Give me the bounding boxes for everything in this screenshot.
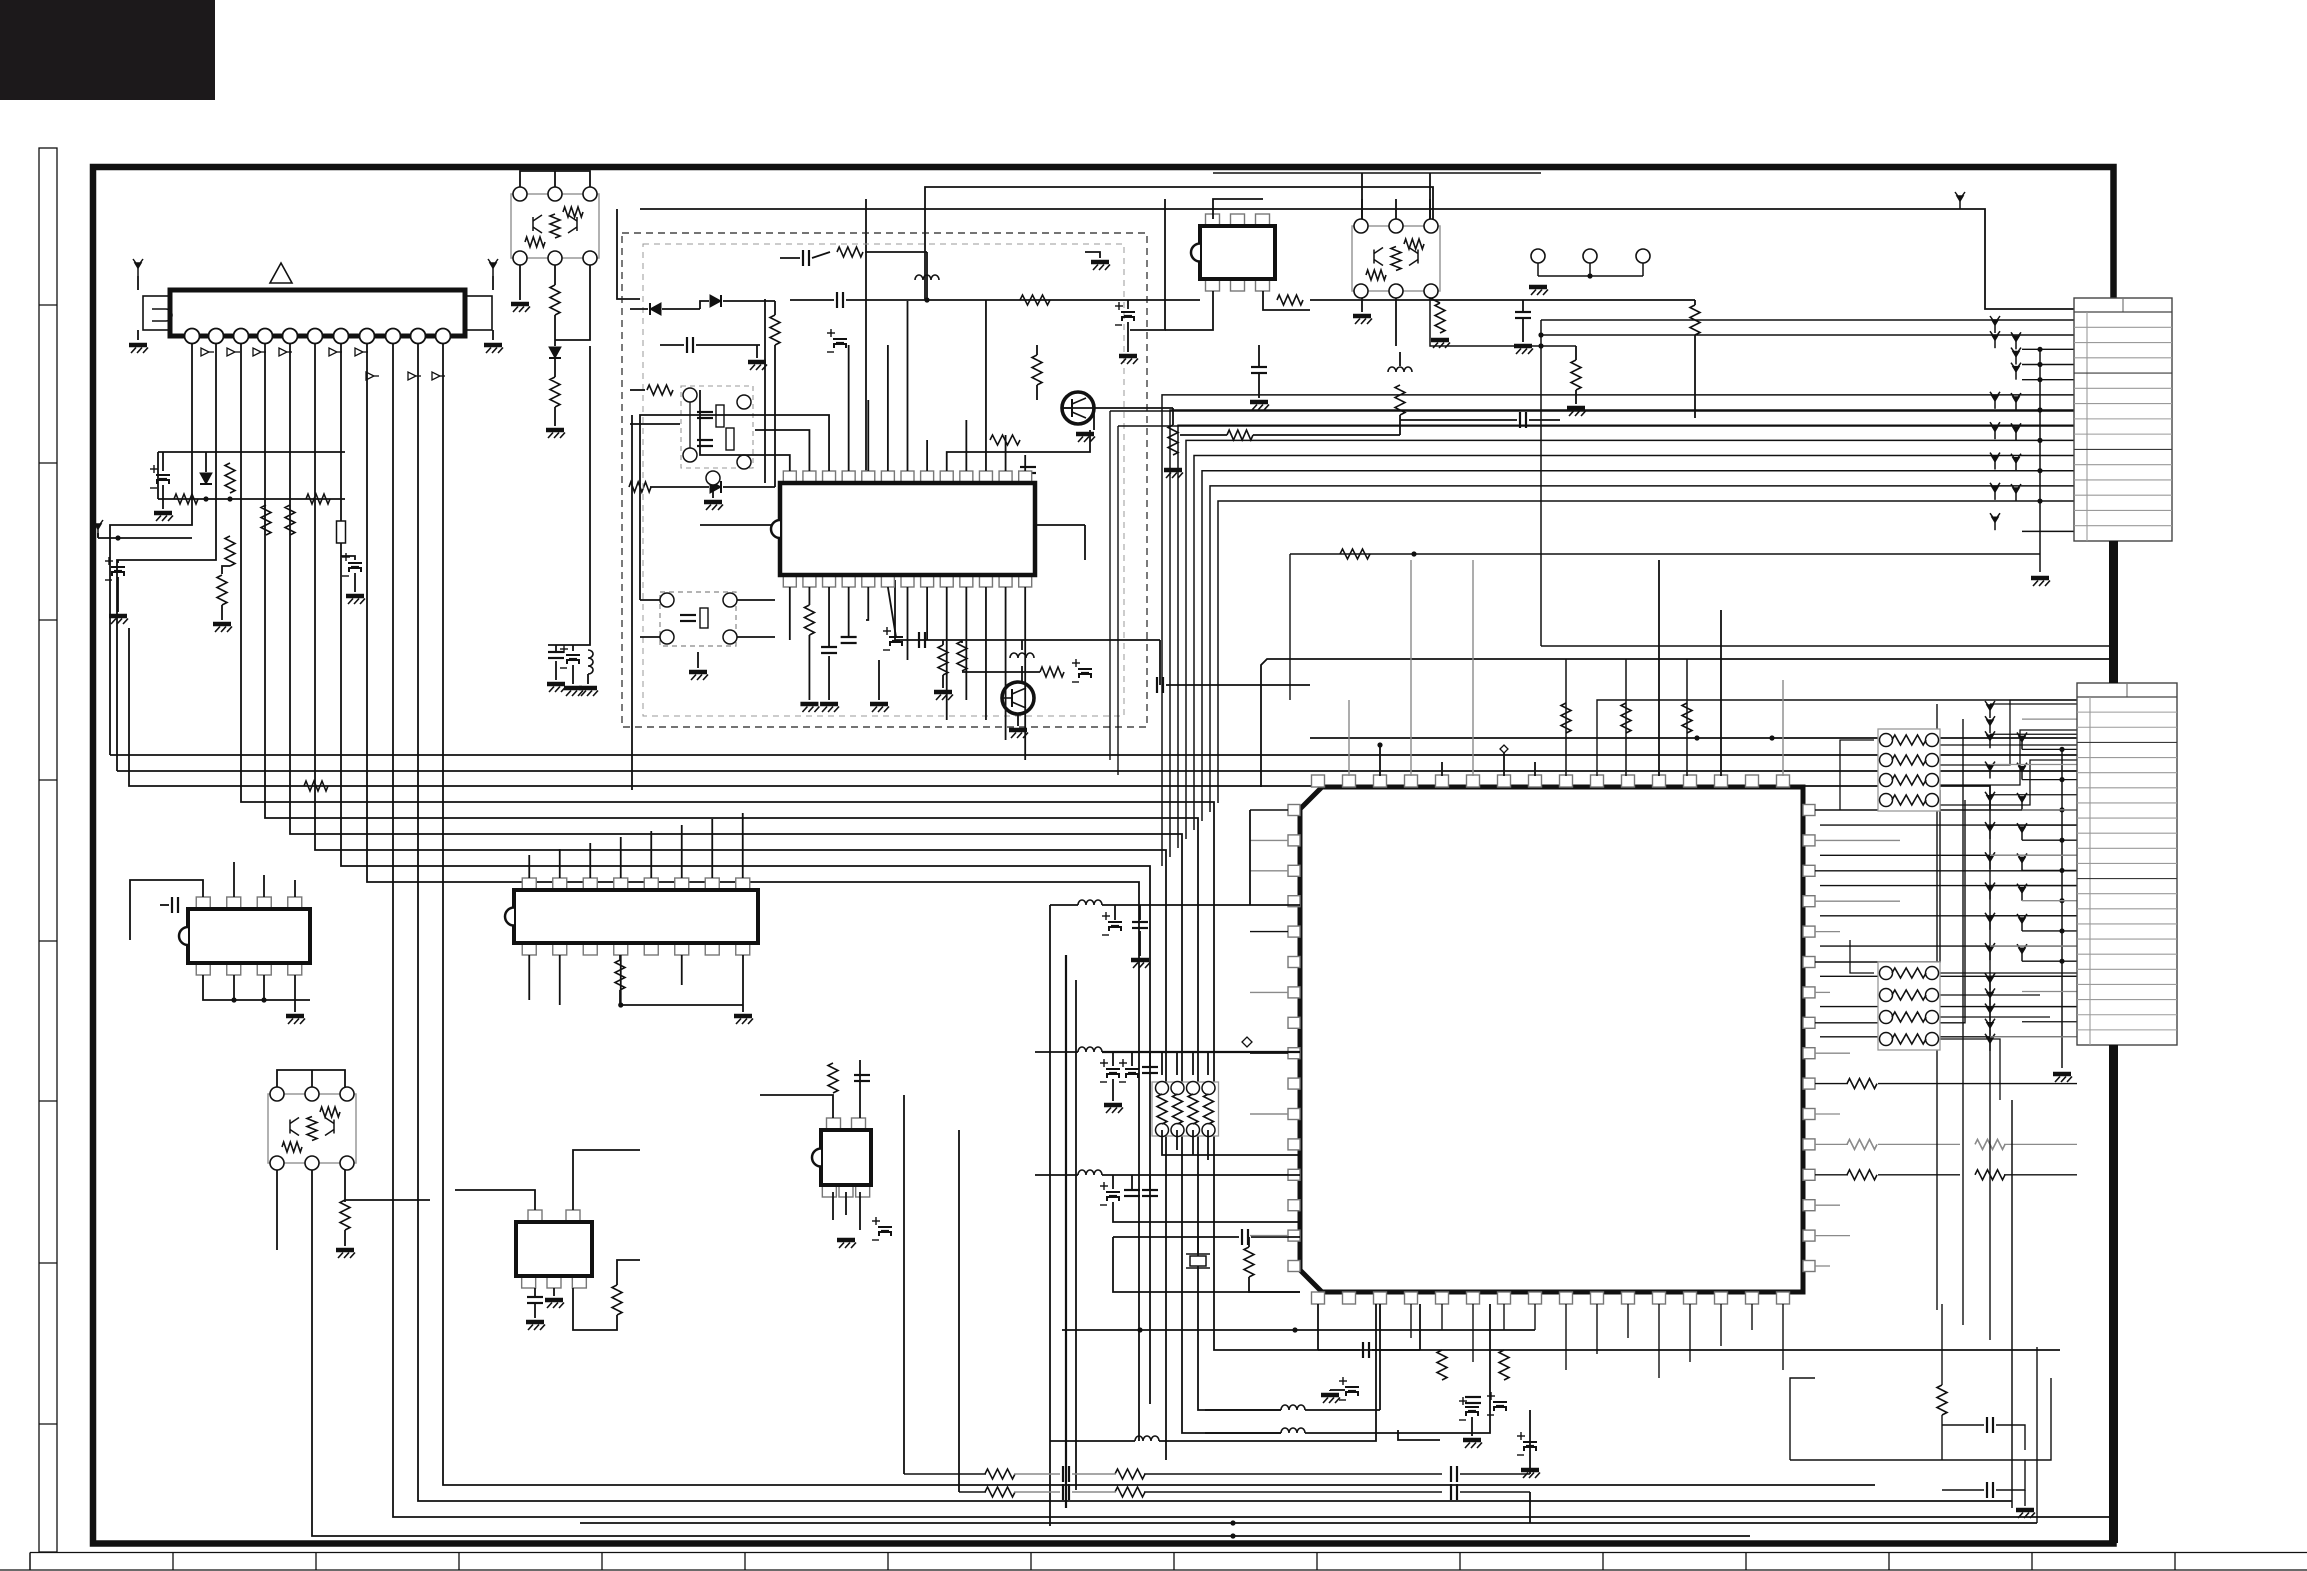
capacitor bbox=[841, 637, 857, 643]
wire bbox=[203, 975, 310, 1000]
junction bbox=[1292, 1327, 1297, 1332]
wire bbox=[1820, 1036, 2077, 1038]
wire bbox=[790, 299, 834, 301]
coil L7 bbox=[588, 650, 593, 674]
capacitor bbox=[687, 337, 693, 353]
wire bbox=[1065, 955, 1067, 1508]
wire bbox=[1441, 762, 1443, 776]
wire bbox=[97, 533, 99, 538]
wire bbox=[1348, 700, 1350, 776]
IC IC8 main processor bbox=[1300, 787, 1803, 1292]
resistor bbox=[1847, 1170, 1877, 1180]
ecap bbox=[1100, 1059, 1120, 1082]
capacitor C6 bbox=[150, 465, 170, 488]
wire bbox=[1720, 610, 1722, 776]
test point bbox=[1990, 422, 2000, 439]
resistor bbox=[957, 641, 967, 671]
diode D3 bbox=[650, 303, 661, 315]
wire bbox=[962, 671, 1040, 673]
wire bbox=[1820, 915, 2077, 917]
wire bbox=[1541, 334, 2074, 336]
wire bbox=[1172, 408, 1174, 425]
capacitor C8 bbox=[342, 553, 362, 576]
connector CN1 bbox=[2074, 298, 2172, 541]
ground bbox=[820, 704, 839, 712]
wire bbox=[1263, 291, 1310, 310]
capacitor bbox=[1251, 367, 1267, 373]
wire bbox=[1990, 733, 2077, 735]
ground bbox=[1104, 1105, 1123, 1113]
resistor bbox=[1682, 703, 1692, 733]
wire bbox=[1305, 1304, 1490, 1433]
wire bbox=[221, 605, 223, 620]
wire bbox=[1127, 322, 1129, 352]
wire bbox=[341, 343, 1150, 1404]
connector J3 pins bbox=[1531, 249, 1545, 263]
junction bbox=[115, 535, 120, 540]
wire bbox=[573, 1288, 617, 1330]
test point bbox=[1990, 513, 2000, 530]
test point bbox=[1985, 762, 1995, 779]
capacitor bbox=[1142, 1067, 1158, 1073]
wire bbox=[1429, 173, 1431, 219]
test point bbox=[2017, 823, 2027, 840]
wire bbox=[1035, 1174, 1078, 1176]
wire bbox=[294, 975, 296, 1012]
wire bbox=[1176, 1052, 1178, 1075]
ground bbox=[1353, 316, 1372, 324]
resistor bbox=[225, 463, 235, 493]
ecap bbox=[1102, 912, 1122, 935]
junction bbox=[2059, 807, 2064, 812]
wire bbox=[789, 587, 791, 640]
wire bbox=[1430, 298, 1576, 346]
ground bbox=[213, 624, 232, 632]
wire bbox=[1419, 1304, 1421, 1350]
wire bbox=[1162, 395, 2074, 866]
wire bbox=[946, 587, 948, 720]
capacitor bbox=[1987, 1482, 1993, 1498]
wire bbox=[559, 849, 561, 878]
wire bbox=[263, 975, 265, 1000]
wire bbox=[942, 640, 944, 645]
wire bbox=[697, 652, 699, 668]
junction bbox=[2059, 868, 2064, 873]
capacitor bbox=[1063, 1466, 1069, 1482]
wire bbox=[554, 315, 556, 340]
resistor bbox=[1115, 1469, 1145, 1479]
wire bbox=[1361, 199, 1363, 219]
wire bbox=[985, 300, 987, 471]
wire bbox=[1529, 1492, 1531, 1523]
resistor bbox=[1437, 1350, 1447, 1380]
capacitor bbox=[803, 250, 809, 266]
wire bbox=[1250, 931, 1288, 933]
wire bbox=[1114, 905, 1116, 920]
wire bbox=[640, 415, 829, 600]
wire bbox=[904, 1473, 986, 1475]
wire bbox=[354, 573, 356, 592]
resistor bbox=[647, 385, 673, 395]
wire bbox=[572, 665, 574, 684]
wire bbox=[1460, 1473, 1530, 1475]
wire bbox=[1110, 410, 2074, 412]
probe arrow bbox=[355, 348, 368, 356]
test point bbox=[1985, 1004, 1995, 1021]
wire bbox=[700, 524, 980, 526]
wire bbox=[630, 308, 648, 310]
wire bbox=[554, 171, 556, 187]
wire bbox=[2022, 809, 2077, 811]
test point bbox=[1985, 1034, 1995, 1051]
ground bbox=[484, 345, 503, 353]
test point bbox=[2017, 793, 2027, 810]
resistor bbox=[1244, 1247, 1254, 1277]
test point bbox=[1990, 331, 2000, 348]
ground bbox=[1131, 960, 1150, 968]
wire bbox=[1113, 1236, 1239, 1238]
wire bbox=[1815, 1174, 1848, 1176]
ecap bbox=[1339, 1377, 1359, 1400]
IC IC2 bbox=[771, 471, 1035, 587]
wire bbox=[1024, 587, 1026, 760]
wire bbox=[2022, 990, 2077, 992]
wire bbox=[859, 1060, 861, 1118]
wire bbox=[1522, 318, 1524, 342]
wire bbox=[1410, 560, 1412, 776]
wire bbox=[1253, 434, 1400, 436]
test point bbox=[1985, 792, 1995, 809]
wire bbox=[276, 1170, 278, 1250]
wire bbox=[1689, 1304, 1691, 1362]
capacitor bbox=[1242, 1229, 1248, 1245]
wire bbox=[1249, 1277, 1300, 1292]
resistor bbox=[985, 1469, 1015, 1479]
coil L3 bbox=[1010, 653, 1034, 658]
wire bbox=[2036, 1347, 2038, 1523]
junction bbox=[2059, 959, 2064, 964]
wire bbox=[117, 560, 119, 563]
wire bbox=[555, 661, 557, 680]
resistor bbox=[1571, 360, 1581, 390]
junction bbox=[2037, 468, 2042, 473]
antenna node bbox=[488, 259, 498, 276]
wire bbox=[559, 955, 561, 1005]
junction bbox=[203, 496, 208, 501]
wire bbox=[965, 587, 967, 700]
wire bbox=[1084, 525, 1086, 560]
wire bbox=[1131, 1175, 1133, 1189]
test point bbox=[2017, 853, 2027, 870]
junction bbox=[1230, 1533, 1235, 1538]
wire bbox=[1085, 252, 1100, 258]
wire bbox=[926, 587, 928, 640]
capacitor bbox=[1465, 1397, 1481, 1403]
wire bbox=[1815, 809, 2077, 811]
wire bbox=[1093, 408, 1095, 430]
wire bbox=[1113, 1202, 1300, 1222]
wire bbox=[927, 299, 1200, 301]
wire bbox=[1102, 1174, 1300, 1176]
junction bbox=[2037, 498, 2042, 503]
wire bbox=[573, 1150, 640, 1210]
wire bbox=[117, 577, 119, 612]
wire bbox=[162, 452, 164, 471]
ground bbox=[2031, 578, 2050, 586]
diode D4 bbox=[710, 295, 721, 307]
wire bbox=[129, 628, 1990, 810]
wire bbox=[2022, 1021, 2077, 1023]
ground bbox=[1091, 262, 1110, 270]
wire bbox=[1049, 905, 1051, 1526]
wire bbox=[2022, 348, 2074, 350]
wire bbox=[907, 587, 909, 660]
resistor bbox=[217, 575, 227, 605]
junction bbox=[1587, 273, 1592, 278]
ground bbox=[1463, 1440, 1482, 1448]
wire bbox=[1815, 1113, 1840, 1115]
wire bbox=[1565, 1304, 1567, 1370]
wire bbox=[846, 299, 927, 301]
resistor bbox=[1115, 1487, 1145, 1497]
wire bbox=[985, 587, 987, 720]
wire bbox=[587, 674, 589, 684]
wire bbox=[1249, 810, 1251, 905]
wire bbox=[1180, 434, 1227, 436]
junction bbox=[1377, 742, 1382, 747]
wire bbox=[1400, 419, 1517, 421]
resistor bbox=[804, 605, 814, 635]
wire bbox=[1597, 700, 2113, 776]
wire bbox=[1503, 753, 1505, 776]
wire bbox=[528, 955, 530, 1000]
capacitor bbox=[1515, 312, 1531, 318]
wire bbox=[1878, 1174, 1960, 1176]
wire bbox=[455, 1190, 535, 1210]
wire bbox=[1149, 1175, 1151, 1189]
wire bbox=[755, 430, 809, 471]
rnet RN3 bbox=[1152, 1082, 1219, 1137]
wire bbox=[158, 451, 345, 453]
wire bbox=[1840, 740, 1874, 810]
ground bbox=[1529, 287, 1548, 295]
wire bbox=[1250, 809, 1288, 811]
wire bbox=[774, 345, 776, 487]
wire bbox=[650, 486, 709, 488]
probe arrow bbox=[201, 348, 214, 356]
wire bbox=[1395, 199, 1397, 219]
wire bbox=[894, 580, 896, 640]
wire bbox=[711, 819, 713, 878]
wire bbox=[1361, 173, 1363, 219]
junction bbox=[231, 997, 236, 1002]
wire bbox=[925, 187, 1433, 300]
wire bbox=[1815, 1265, 1830, 1267]
wire bbox=[1251, 1236, 1300, 1238]
wire bbox=[780, 257, 800, 259]
wire bbox=[1720, 1304, 1722, 1346]
test point bbox=[1990, 483, 2000, 500]
resistor bbox=[1020, 295, 1050, 305]
resistor bbox=[837, 247, 863, 257]
wire bbox=[866, 587, 868, 620]
wire bbox=[1815, 870, 2077, 872]
ground bbox=[1431, 340, 1450, 348]
junction bbox=[2037, 438, 2042, 443]
capacitor bbox=[1451, 1484, 1457, 1500]
wire bbox=[1250, 1113, 1288, 1115]
wire bbox=[1050, 904, 1078, 906]
capacitor bbox=[837, 292, 843, 308]
wire bbox=[1625, 659, 1627, 776]
test point bbox=[1985, 852, 1995, 869]
wire bbox=[1250, 991, 1288, 993]
test point bbox=[1985, 701, 1995, 718]
wire bbox=[554, 265, 556, 285]
junction bbox=[2059, 898, 2064, 903]
junction bbox=[2059, 777, 2064, 782]
wire bbox=[315, 343, 1166, 1460]
wire bbox=[617, 209, 640, 299]
resistor bbox=[1227, 430, 1253, 440]
wire bbox=[961, 640, 963, 643]
wire bbox=[1149, 1052, 1151, 1066]
wire bbox=[222, 566, 230, 574]
wire bbox=[1815, 1083, 1848, 1085]
wire bbox=[1318, 1349, 1360, 1351]
wire bbox=[1072, 1491, 1116, 1493]
wire bbox=[888, 587, 896, 637]
wire bbox=[764, 299, 766, 483]
wire bbox=[1878, 1083, 2077, 1085]
ground bbox=[1013, 692, 1032, 700]
wire bbox=[1815, 931, 1840, 933]
capacitor bbox=[527, 1297, 543, 1303]
wire bbox=[344, 1230, 346, 1246]
resistor bbox=[1277, 295, 1303, 305]
wire bbox=[1289, 554, 1291, 700]
wire bbox=[1815, 1235, 1850, 1237]
wire bbox=[1540, 320, 1542, 646]
wire bbox=[2022, 900, 2077, 902]
IC IC6 bbox=[516, 1210, 592, 1288]
wire bbox=[1575, 390, 1577, 404]
wire bbox=[1144, 1473, 1442, 1475]
ground bbox=[286, 1016, 305, 1024]
probe arrow bbox=[253, 348, 266, 356]
rnet RN2 bbox=[1878, 962, 1940, 1050]
wire bbox=[1925, 730, 2077, 785]
resistor bbox=[304, 781, 328, 791]
wire bbox=[263, 875, 265, 897]
wire bbox=[1815, 790, 1940, 962]
wire bbox=[534, 1288, 536, 1297]
test point bbox=[1990, 316, 2000, 333]
wire bbox=[1062, 407, 1173, 409]
IC IC4 bbox=[179, 897, 310, 975]
wire bbox=[958, 1130, 960, 1492]
wire bbox=[589, 843, 591, 878]
wire bbox=[1990, 945, 2077, 947]
resistor bbox=[985, 1487, 1015, 1497]
junction bbox=[227, 496, 232, 501]
wire bbox=[1815, 800, 1965, 1023]
wire bbox=[548, 346, 590, 645]
wire bbox=[345, 1170, 430, 1200]
wire bbox=[1925, 1016, 2050, 1018]
wire bbox=[1192, 1130, 1194, 1155]
ground bbox=[870, 704, 889, 712]
junction bbox=[2037, 347, 2042, 352]
junction bbox=[1137, 1327, 1142, 1332]
wire bbox=[1990, 885, 2077, 887]
wire bbox=[1989, 810, 1991, 1340]
wire bbox=[1330, 1389, 1345, 1391]
wire bbox=[859, 1192, 861, 1230]
resistor bbox=[1499, 1350, 1509, 1380]
test point bbox=[2017, 944, 2027, 961]
wire bbox=[492, 276, 494, 290]
resistor bbox=[1621, 703, 1631, 733]
junction bbox=[1230, 1520, 1235, 1525]
junction bbox=[2059, 747, 2064, 752]
wire bbox=[619, 955, 621, 960]
wire bbox=[1820, 945, 2077, 947]
wire bbox=[1250, 839, 1288, 841]
wire bbox=[554, 407, 556, 426]
connector CN2 bbox=[2077, 683, 2177, 1045]
wire bbox=[1398, 1430, 1440, 1440]
wire bbox=[1815, 1143, 1848, 1145]
wire bbox=[1820, 885, 2077, 887]
wire bbox=[1024, 455, 1026, 471]
wire bbox=[312, 1170, 1750, 1536]
probe arrow bbox=[432, 372, 445, 380]
test point bbox=[2011, 348, 2021, 365]
wire bbox=[1815, 1052, 1850, 1054]
capacitor bbox=[919, 632, 925, 648]
wire bbox=[393, 343, 2110, 1517]
ground bbox=[1164, 470, 1183, 478]
ground bbox=[547, 684, 566, 692]
transistor Q3 bbox=[1062, 392, 1094, 424]
wire bbox=[1258, 373, 1260, 398]
test point bbox=[1985, 822, 1995, 839]
node bbox=[1242, 1037, 1252, 1047]
wire bbox=[1075, 980, 1077, 1490]
ground bbox=[154, 513, 173, 521]
wire bbox=[1139, 931, 1141, 956]
test point bbox=[2017, 914, 2027, 931]
ground bbox=[564, 688, 583, 696]
wire bbox=[110, 754, 2077, 756]
wire bbox=[1166, 684, 1310, 686]
wire bbox=[1261, 659, 2113, 787]
wire bbox=[341, 556, 355, 560]
ground bbox=[346, 596, 365, 604]
wire bbox=[1529, 1410, 1531, 1474]
wire bbox=[1541, 645, 2113, 647]
wire bbox=[1014, 1491, 1060, 1493]
filter pin bbox=[706, 471, 720, 485]
wire bbox=[774, 301, 776, 315]
test point bbox=[2017, 732, 2027, 749]
coil L4 bbox=[1078, 900, 1102, 905]
wire bbox=[1361, 298, 1363, 312]
wire bbox=[760, 1095, 833, 1118]
ecap bbox=[827, 329, 847, 352]
wire bbox=[519, 265, 521, 300]
